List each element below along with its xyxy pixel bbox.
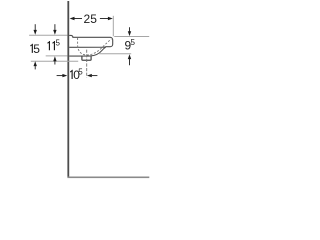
dim 10.5: left arrow — [57, 75, 63, 77]
dim 25: left arrow — [70, 17, 75, 20]
dim 9.5: upper arrow — [129, 27, 131, 31]
dim 9.5: top extension line — [114, 36, 149, 38]
left dims: low extension line (15) — [31, 60, 78, 62]
wall — [67, 1, 69, 177]
dim 25: extension line (front) — [112, 16, 114, 37]
basin lower bulge — [69, 47, 106, 56]
drain centerline dashed — [86, 50, 88, 78]
svg-text:5: 5 — [131, 38, 136, 47]
dim 11.5: upper arrow — [54, 24, 56, 30]
dim 9.5: lower arrow — [128, 54, 131, 59]
svg-text:5: 5 — [33, 42, 40, 56]
dim 9.5: bottom extension line — [99, 53, 131, 55]
drain trap box — [82, 56, 91, 60]
hidden bowl dashed line — [78, 38, 112, 55]
left dims: mid extension line (11.5) — [46, 55, 68, 57]
dim 11.5: label — [47, 41, 50, 50]
dim 11.5: lower arrow — [53, 56, 56, 61]
dim 15: label — [30, 44, 33, 53]
dim 25: right arrow — [108, 17, 113, 20]
dim 15: lower arrow — [34, 61, 37, 66]
dim 10.5: label — [70, 70, 73, 79]
svg-text:5: 5 — [78, 67, 83, 76]
dim 15: upper arrow — [34, 24, 36, 30]
floor — [67, 177, 149, 179]
svg-text:25: 25 — [84, 12, 98, 26]
svg-text:5: 5 — [56, 39, 61, 48]
basin outline — [69, 35, 113, 47]
left dims: top extension line — [29, 34, 67, 36]
dim 10.5: right arrow — [87, 74, 92, 77]
